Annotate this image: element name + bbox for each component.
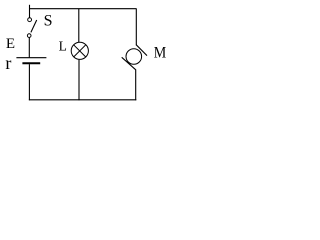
wire left branch upper (rail to switch): [29, 5, 31, 18]
battery E with internal resistance r: [16, 58, 46, 64]
label S: [44, 12, 53, 29]
wire bottom rail: [29, 99, 136, 101]
wire motor branch lower: [135, 69, 137, 100]
svg-text:M: M: [154, 45, 167, 62]
svg-text:E: E: [6, 36, 15, 52]
svg-text:r: r: [5, 53, 11, 73]
svg-text:S: S: [44, 12, 53, 29]
wire lamp branch lower: [78, 60, 80, 101]
motor M: [122, 45, 147, 70]
label E: [6, 36, 15, 52]
wire motor branch upper: [135, 9, 137, 46]
label r: [5, 53, 11, 73]
label L: [59, 38, 67, 53]
label M: [154, 45, 167, 62]
lamp L: [71, 42, 88, 59]
switch S: [27, 18, 36, 38]
svg-text:L: L: [59, 38, 67, 53]
wire switch to battery: [28, 37, 30, 57]
wire battery to bottom rail: [28, 64, 30, 100]
wire top rail: [29, 8, 136, 10]
wire lamp branch upper: [78, 9, 80, 43]
